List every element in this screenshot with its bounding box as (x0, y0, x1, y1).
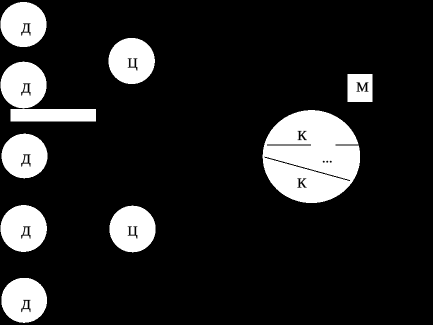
label Д3 (21, 153, 31, 168)
label Д2 (21, 81, 31, 96)
separator line left segment (267, 144, 311, 146)
svg-text:Д: Д (21, 153, 31, 168)
sensor circle Д2 (0, 62, 46, 109)
sensor circle Д5 (1, 278, 47, 323)
sensor circle Д4 (1, 205, 47, 252)
svg-text:Д: Д (21, 81, 31, 96)
label Д5 (21, 298, 31, 313)
label К bottom (297, 177, 307, 192)
label К top (297, 129, 307, 144)
svg-text:...: ... (322, 151, 333, 166)
label Ц1 (128, 57, 138, 72)
svg-text:К: К (297, 177, 307, 192)
svg-text:Ц: Ц (128, 57, 138, 72)
separator line right segment (336, 144, 361, 146)
svg-text:Д: Д (21, 21, 31, 36)
label Д4 (21, 225, 31, 240)
svg-text:Д: Д (21, 298, 31, 313)
center circle Ц1 (108, 38, 154, 84)
label Ц2 (128, 225, 138, 240)
cluster big circle (263, 110, 361, 203)
diagonal separator line (265, 157, 350, 181)
svg-text:К: К (297, 129, 307, 144)
sensor circle Д1 (0, 2, 46, 47)
center circle Ц2 (109, 206, 155, 253)
svg-text:Ц: Ц (128, 225, 138, 240)
dots bar between Д2 and Д3 (11, 109, 97, 122)
model box М (348, 74, 373, 102)
ellipsis dots (322, 151, 333, 166)
svg-text:Д: Д (21, 225, 31, 240)
label М (356, 81, 369, 96)
label Д1 (21, 21, 31, 36)
sensor circle Д3 (2, 134, 48, 179)
svg-text:М: М (356, 81, 369, 96)
